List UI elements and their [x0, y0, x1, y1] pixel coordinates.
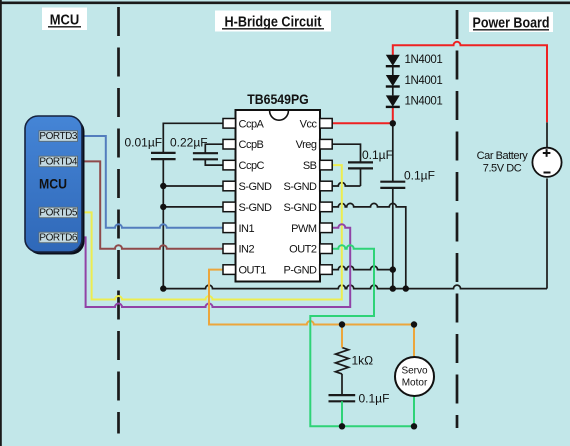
svg-text:1N4001: 1N4001 — [405, 75, 443, 87]
svg-text:MCU: MCU — [50, 12, 80, 28]
svg-text:OUT1: OUT1 — [239, 265, 267, 277]
svg-text:Motor: Motor — [402, 378, 428, 389]
svg-text:OUT2: OUT2 — [289, 244, 317, 256]
svg-text:PORTD4: PORTD4 — [39, 157, 78, 168]
svg-text:CcpC: CcpC — [239, 160, 265, 172]
svg-text:Car Battery: Car Battery — [477, 150, 529, 162]
svg-text:Power Board: Power Board — [473, 15, 550, 31]
svg-text:PORTD5: PORTD5 — [39, 208, 78, 219]
svg-text:PORTD3: PORTD3 — [39, 131, 78, 142]
svg-text:CcpA: CcpA — [239, 118, 265, 130]
svg-text:TB6549PG: TB6549PG — [247, 91, 309, 107]
svg-text:S-GND: S-GND — [284, 181, 318, 193]
svg-text:Vcc: Vcc — [300, 118, 318, 130]
svg-text:S-GND: S-GND — [284, 202, 318, 214]
svg-text:MCU: MCU — [39, 176, 67, 191]
svg-text:PWM: PWM — [291, 223, 317, 235]
svg-text:0.1µF: 0.1µF — [359, 392, 390, 406]
svg-text:0.01µF: 0.01µF — [125, 136, 163, 150]
svg-text:0.1µF: 0.1µF — [404, 169, 435, 183]
svg-text:0.22µF: 0.22µF — [170, 136, 208, 150]
svg-text:IN2: IN2 — [239, 244, 255, 256]
svg-text:Servo: Servo — [401, 366, 428, 377]
svg-text:CcpB: CcpB — [239, 139, 264, 151]
svg-text:S-GND: S-GND — [239, 202, 273, 214]
svg-text:0.1µF: 0.1µF — [362, 148, 393, 162]
svg-text:S-GND: S-GND — [239, 181, 273, 193]
svg-text:1N4001: 1N4001 — [405, 96, 443, 108]
svg-text:IN1: IN1 — [239, 223, 255, 235]
svg-text:Vreg: Vreg — [296, 139, 317, 151]
svg-text:1kΩ: 1kΩ — [352, 354, 374, 368]
svg-text:7.5V DC: 7.5V DC — [483, 163, 522, 175]
svg-text:PORTD6: PORTD6 — [39, 233, 78, 244]
svg-text:P-GND: P-GND — [284, 265, 318, 277]
svg-text:1N4001: 1N4001 — [405, 54, 443, 66]
svg-text:H-Bridge Circuit: H-Bridge Circuit — [225, 14, 322, 30]
svg-text:SB: SB — [303, 160, 317, 172]
